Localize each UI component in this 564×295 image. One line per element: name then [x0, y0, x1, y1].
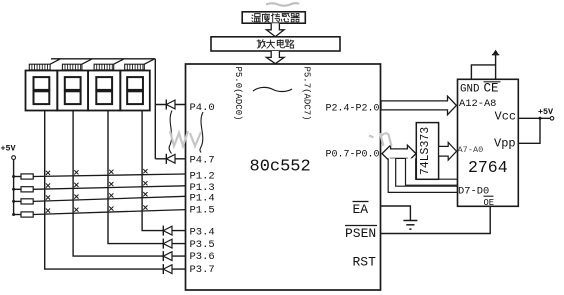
resistor R2	[14, 188, 21, 190]
svg-text:P5.7(ADC7): P5.7(ADC7)	[302, 67, 312, 121]
svg-text:CE: CE	[484, 82, 499, 96]
svg-text:EA: EA	[353, 202, 369, 217]
svg-text:P3.5: P3.5	[190, 239, 215, 251]
label 放大电路 (amplifier circuit)	[257, 39, 294, 48]
junction dot row 3	[12, 200, 15, 203]
svg-text:74LS373: 74LS373	[419, 127, 432, 175]
ground symbol	[403, 220, 417, 222]
watermark mark near P0 arrow	[369, 133, 392, 146]
ribbon bus line above displays	[51, 58, 155, 60]
no-connect X marks at wire crossings	[46, 171, 50, 175]
hollow elbow bus P0 to D7-D0	[388, 158, 457, 192]
IC U3 2764 EPROM body	[458, 79, 519, 206]
wire display column to P3.5 with arrowhead	[108, 111, 186, 244]
svg-text:2764: 2764	[468, 158, 508, 177]
hollow down arrow 2 (amplifier to MCU)	[266, 51, 284, 64]
svg-text:A12-A8: A12-A8	[459, 98, 496, 110]
resistor R3	[14, 200, 21, 202]
break squiggle between P5.0 and P5.7	[253, 87, 292, 91]
wire EA to ground	[381, 206, 411, 221]
wire P4.0 with arrowhead	[155, 104, 185, 106]
wire: ribbon down to P4 column	[154, 59, 156, 159]
svg-text:P4.0: P4.0	[190, 102, 215, 114]
junction dot row 4	[12, 213, 15, 216]
svg-text:RST: RST	[353, 255, 377, 270]
data bus double-headed hollow arrow P0.7-P0.0 to 74LS373	[382, 145, 416, 162]
wire display column to P3.7 with arrowhead	[45, 111, 186, 270]
wire display column to P3.6 with arrowhead	[73, 111, 185, 257]
svg-text:GND: GND	[460, 84, 479, 96]
+5V bus vertical	[13, 160, 15, 215]
block: amplifier circuit box	[211, 37, 340, 51]
wire PSEN to 2764 OE	[381, 206, 491, 233]
svg-text:P4.7: P4.7	[190, 155, 215, 167]
digit 8 figures inside modules	[34, 77, 50, 90]
svg-text:+5V: +5V	[538, 107, 554, 117]
wire display column to P3.4 with arrowhead	[142, 111, 185, 231]
wire Vcc to +5V with terminal	[518, 117, 550, 119]
svg-text:P3.4: P3.4	[190, 227, 215, 239]
svg-text:P2.4-P2.0: P2.4-P2.0	[325, 104, 379, 115]
IC U1 80c552 body	[186, 64, 381, 290]
+5V terminal circle	[12, 156, 16, 160]
GND-CE tie bracket on 2764 top	[471, 65, 495, 79]
hollow arrow 74LS373 to A7-A0	[439, 142, 457, 160]
svg-text:P0.7-P0.0: P0.7-P0.0	[325, 150, 379, 161]
svg-text:Vcc: Vcc	[495, 110, 517, 124]
svg-text:P1.5: P1.5	[190, 204, 215, 216]
hollow down arrow 1 (sensor to amplifier)	[266, 23, 284, 36]
pin header combs on top of displays	[29, 64, 50, 70]
svg-text:+5V: +5V	[1, 144, 17, 154]
address bus hollow arrow P2.4-P2.0 to A12-A8	[381, 96, 456, 115]
svg-text:PSEN: PSEN	[345, 226, 376, 241]
svg-text:P1.2: P1.2	[190, 171, 215, 183]
IC U2 74LS373 body	[416, 123, 438, 180]
wire P4.7 with arrowhead	[155, 158, 185, 160]
hollow elbow bus P0 to 2764 (upper)	[406, 158, 458, 185]
break squiggle inside chip P4.0..P4.7	[200, 112, 203, 153]
svg-text:P5.0(ADC0): P5.0(ADC0)	[233, 67, 243, 121]
watermark smudge above sensor box	[266, 3, 299, 6]
wire Vpp to +5V junction	[518, 118, 540, 143]
label 温度传感器 (temperature sensor)	[252, 13, 300, 22]
resistor R4	[14, 214, 21, 216]
block: temperature sensor box	[242, 12, 305, 23]
svg-text:Vpp: Vpp	[494, 137, 516, 151]
7-segment display modules (4) outline	[26, 71, 58, 111]
ribbon diagonals to combs	[50, 59, 60, 64]
watermark WW near chip left edge	[170, 131, 201, 146]
junction dot row 1	[12, 175, 15, 178]
junction dot row 2	[12, 188, 15, 191]
svg-text:P1.4: P1.4	[190, 193, 215, 205]
break squiggle on P4 column	[169, 111, 172, 154]
svg-text:OE: OE	[484, 198, 495, 208]
resistor R1	[14, 176, 21, 178]
power symbol above 2764	[492, 54, 499, 56]
svg-text:A7-A0: A7-A0	[458, 145, 484, 155]
svg-text:P3.6: P3.6	[190, 251, 215, 263]
svg-text:80c552: 80c552	[250, 158, 311, 177]
svg-text:P3.7: P3.7	[190, 264, 215, 276]
